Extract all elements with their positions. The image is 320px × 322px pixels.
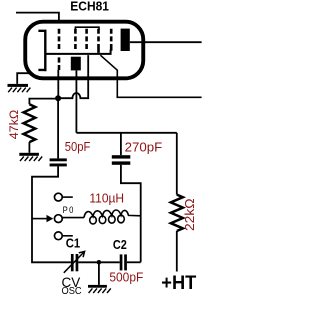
cathode bracket	[38, 30, 45, 72]
svg-text:ECH81: ECH81	[70, 0, 109, 13]
capacitor 50pF	[50, 158, 67, 166]
HT feed wire upper	[176, 133, 178, 195]
heptode anode lead wire	[130, 41, 202, 43]
anode rail wire	[76, 132, 176, 134]
resistor R2 22k zigzag	[171, 195, 183, 231]
switch contact 1	[54, 193, 72, 201]
svg-text:P0: P0	[63, 204, 75, 215]
wire 50pF to C1	[32, 166, 71, 262]
triode anode	[71, 57, 81, 71]
svg-text:C1: C1	[66, 236, 80, 251]
wire dot to 47k	[29, 99, 58, 105]
capacitor 50pF lead top	[57, 101, 59, 159]
wire C2 right	[127, 261, 141, 263]
heptode anode	[121, 29, 130, 51]
tube V1 ECH81 envelope	[25, 22, 143, 79]
pin A (triode grid)	[57, 70, 59, 98]
svg-text:47kΩ: 47kΩ	[9, 109, 21, 139]
svg-text:22kΩ: 22kΩ	[182, 198, 197, 231]
svg-text:50pF: 50pF	[65, 139, 91, 154]
svg-text:C2: C2	[113, 237, 127, 252]
inductor L1 coil	[84, 210, 141, 224]
HT feed wire lower	[176, 231, 178, 272]
g3 injection diagonal + pin D wire	[100, 55, 201, 97]
cathode line	[45, 50, 111, 54]
junction dot	[55, 95, 61, 101]
pin B (triode anode lead)	[75, 70, 77, 132]
resistor R1 bottom lead	[28, 142, 30, 153]
svg-text:500pF: 500pF	[109, 269, 143, 284]
ground G2	[19, 153, 42, 161]
wire C1 to C2	[78, 261, 119, 263]
heptode grid g3	[85, 29, 88, 51]
svg-text:OSC: OSC	[62, 286, 82, 297]
grid wire with hop + pin C	[58, 55, 88, 98]
junction dot C1C2	[97, 260, 102, 265]
ground G3	[88, 285, 111, 293]
ground G1	[8, 84, 31, 92]
heptode grid g1	[58, 29, 61, 51]
capacitor C2	[120, 254, 127, 270]
ground G3 stem	[98, 262, 100, 285]
svg-text:270pF: 270pF	[125, 140, 163, 155]
switch arrow wiper	[32, 215, 53, 222]
svg-text:110µH: 110µH	[89, 190, 124, 205]
heptode grid g5	[110, 29, 113, 51]
switch contact 2	[54, 215, 84, 223]
triode grid	[58, 57, 61, 70]
ground G1 wire	[17, 73, 30, 84]
wire top stub	[16, 13, 59, 22]
svg-text:+HT: +HT	[161, 272, 196, 294]
capacitor 270pF lead top	[120, 133, 122, 155]
wire 270pF to C2 riser	[121, 165, 141, 262]
capacitor 270pF	[112, 155, 131, 165]
resistor R1 47k zigzag	[24, 104, 36, 142]
screen tie g2-g4	[75, 27, 99, 29]
heptode grid g2	[74, 29, 77, 51]
capacitor C1 variable	[64, 251, 85, 272]
switch contact 3	[54, 232, 72, 240]
heptode grid g4	[97, 29, 100, 53]
